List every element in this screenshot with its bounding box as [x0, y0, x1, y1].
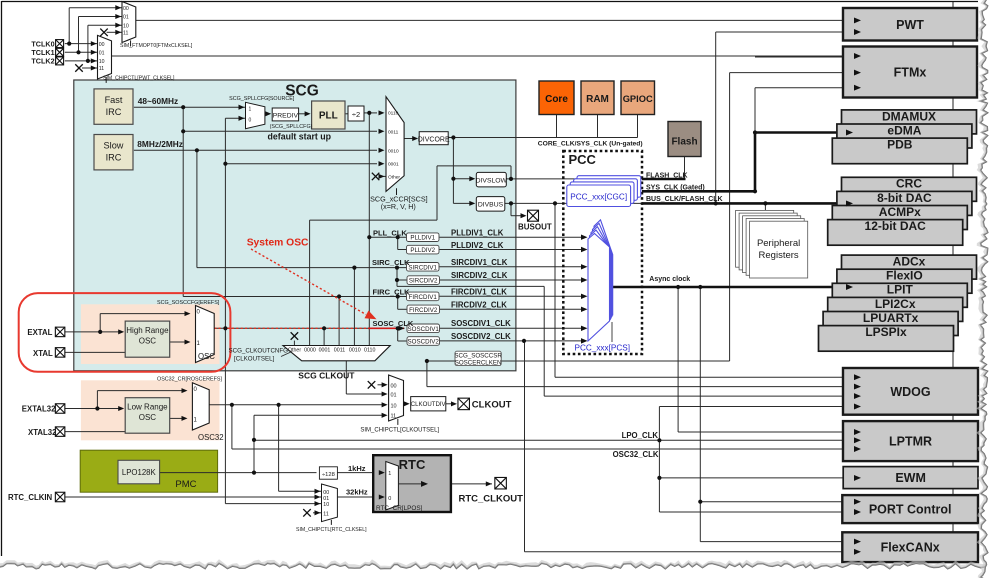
- svg-text:(x=R, V, H): (x=R, V, H): [381, 202, 416, 211]
- svg-text:SOSCDIV1_CLK: SOSCDIV1_CLK: [451, 319, 511, 328]
- svg-text:SIM_FTMOPT0[FTMxCLKSEL]: SIM_FTMOPT0[FTMxCLKSEL]: [120, 43, 193, 49]
- svg-text:11: 11: [391, 414, 397, 420]
- svg-text:SOSCDIV1: SOSCDIV1: [408, 326, 440, 333]
- svg-text:Other: Other: [288, 347, 301, 353]
- svg-text:SIRCDIV1: SIRCDIV1: [408, 264, 437, 271]
- svg-text:8MHz/2MHz: 8MHz/2MHz: [137, 139, 183, 149]
- svg-text:CLKOUT: CLKOUT: [472, 399, 512, 410]
- svg-text:0110: 0110: [388, 111, 399, 117]
- svg-text:PLL_CLK: PLL_CLK: [373, 228, 407, 237]
- svg-text:FIRCDIV1_CLK: FIRCDIV1_CLK: [451, 287, 507, 296]
- svg-text:PLLDIV2_CLK: PLLDIV2_CLK: [451, 241, 504, 250]
- svg-text:SCG_SOSCCSR: SCG_SOSCCSR: [454, 353, 502, 360]
- svg-text:PLLDIV2: PLLDIV2: [410, 247, 435, 254]
- svg-text:PCC_xxx[PCS]: PCC_xxx[PCS]: [575, 344, 631, 353]
- svg-text:RTC_CLKOUT: RTC_CLKOUT: [459, 493, 524, 504]
- svg-text:0010: 0010: [349, 347, 361, 353]
- svg-text:SIM_CHIPCTL[RTC_CLKSEL]: SIM_CHIPCTL[RTC_CLKSEL]: [296, 527, 367, 533]
- svg-text:10: 10: [123, 23, 129, 29]
- svg-text:01: 01: [123, 15, 129, 21]
- svg-text:FIRCDIV2_CLK: FIRCDIV2_CLK: [451, 300, 507, 309]
- svg-text:01: 01: [391, 393, 397, 399]
- svg-text:XTAL32: XTAL32: [28, 428, 57, 437]
- svg-text:PCC_xxx[CGC]: PCC_xxx[CGC]: [570, 193, 627, 202]
- svg-text:0110: 0110: [364, 347, 375, 353]
- svg-text:IRC: IRC: [106, 107, 122, 117]
- svg-text:48~60MHz: 48~60MHz: [138, 96, 178, 106]
- svg-text:FIRC_CLK: FIRC_CLK: [373, 287, 411, 296]
- svg-text:00: 00: [391, 383, 397, 389]
- svg-text:1: 1: [388, 471, 391, 477]
- svg-text:SIM_CHIPCTL[PWT_CLKSEL]: SIM_CHIPCTL[PWT_CLKSEL]: [103, 75, 175, 81]
- svg-text:SCG_SOSCCFG[EREFS]: SCG_SOSCCFG[EREFS]: [157, 300, 220, 306]
- svg-text:1kHz: 1kHz: [348, 464, 366, 473]
- svg-text:PORT Control: PORT Control: [869, 503, 952, 517]
- svg-text:EWM: EWM: [895, 471, 926, 485]
- svg-text:SOSCDIV2_CLK: SOSCDIV2_CLK: [451, 332, 511, 341]
- svg-text:EXTAL32: EXTAL32: [22, 405, 56, 414]
- svg-text:ACMPx: ACMPx: [879, 205, 921, 219]
- svg-text:PREDIV: PREDIV: [273, 112, 299, 119]
- svg-text:0010: 0010: [388, 148, 399, 154]
- svg-text:RTC: RTC: [399, 457, 426, 472]
- svg-text:OSC32: OSC32: [198, 433, 224, 442]
- svg-text:SCG_SPLLCFG[SOURCE]: SCG_SPLLCFG[SOURCE]: [229, 96, 295, 102]
- svg-text:PLLDIV1: PLLDIV1: [410, 235, 435, 242]
- svg-text:EXTAL: EXTAL: [27, 328, 52, 337]
- svg-text:TCLK0: TCLK0: [31, 39, 54, 48]
- svg-text:FIRCDIV1: FIRCDIV1: [409, 294, 438, 301]
- svg-text:00: 00: [99, 42, 105, 48]
- svg-text:CLKOUTDIV: CLKOUTDIV: [411, 401, 447, 408]
- svg-text:RTC_CR[LPOS]: RTC_CR[LPOS]: [376, 505, 423, 512]
- svg-text:8-bit DAC: 8-bit DAC: [877, 191, 932, 205]
- svg-text:CRC: CRC: [896, 177, 922, 191]
- svg-text:OSC32_CLK: OSC32_CLK: [613, 450, 659, 459]
- svg-text:10: 10: [323, 502, 329, 508]
- svg-text:0: 0: [249, 118, 252, 124]
- svg-text:DIVBUS: DIVBUS: [478, 201, 504, 208]
- svg-text:SIRCDIV2: SIRCDIV2: [409, 278, 438, 285]
- svg-text:FTMx: FTMx: [894, 66, 927, 80]
- svg-text:Flash: Flash: [671, 136, 697, 147]
- svg-text:GPIOC: GPIOC: [623, 94, 653, 104]
- svg-text:LPO128K: LPO128K: [122, 468, 157, 477]
- svg-text:SCG CLKOUT: SCG CLKOUT: [298, 371, 355, 381]
- svg-text:PLLDIV1_CLK: PLLDIV1_CLK: [451, 228, 504, 237]
- svg-text:RTC_CLKIN: RTC_CLKIN: [8, 493, 53, 502]
- svg-text:Fast: Fast: [105, 95, 123, 105]
- svg-text:DMAMUX: DMAMUX: [882, 109, 936, 123]
- svg-text:PCC: PCC: [569, 152, 597, 167]
- svg-text:PLL: PLL: [319, 111, 338, 122]
- svg-text:PMC: PMC: [175, 479, 196, 490]
- svg-text:IRC: IRC: [106, 152, 122, 162]
- svg-text:32kHz: 32kHz: [346, 488, 368, 497]
- svg-text:÷2: ÷2: [352, 110, 360, 119]
- svg-text:FlexIO: FlexIO: [886, 269, 923, 283]
- svg-text:LPSPIx: LPSPIx: [865, 325, 907, 339]
- svg-text:BUSOUT: BUSOUT: [518, 223, 552, 232]
- svg-text:FlexCANx: FlexCANx: [881, 541, 940, 555]
- svg-text:0011: 0011: [388, 129, 399, 135]
- svg-text:SYS_CLK (Gated): SYS_CLK (Gated): [646, 184, 705, 191]
- svg-text:Slow: Slow: [104, 141, 124, 151]
- svg-text:PDB: PDB: [887, 138, 913, 152]
- svg-text:10: 10: [99, 59, 105, 65]
- svg-text:(SCG_SPLLCFG): (SCG_SPLLCFG): [270, 124, 313, 130]
- svg-text:CORE_CLK/SYS_CLK (Un-gated): CORE_CLK/SYS_CLK (Un-gated): [538, 140, 643, 147]
- svg-text:SOSCERCLKEN: SOSCERCLKEN: [455, 360, 502, 367]
- svg-text:ADCx: ADCx: [893, 255, 926, 269]
- svg-text:FIRCDIV2: FIRCDIV2: [409, 307, 438, 314]
- svg-text:SOSCDIV2: SOSCDIV2: [408, 339, 440, 346]
- svg-text:RAM: RAM: [586, 94, 609, 105]
- svg-text:Low Range: Low Range: [127, 403, 168, 412]
- svg-text:00: 00: [123, 6, 129, 12]
- svg-text:Other: Other: [388, 174, 400, 180]
- svg-text:SIM_CHIPCTL[CLKOUTSEL]: SIM_CHIPCTL[CLKOUTSEL]: [360, 427, 439, 433]
- svg-text:DIVCORE: DIVCORE: [418, 136, 450, 143]
- svg-text:LPI2Cx: LPI2Cx: [875, 297, 916, 311]
- svg-text:11: 11: [323, 511, 329, 517]
- svg-text:Peripheral: Peripheral: [757, 238, 800, 249]
- svg-text:OSC: OSC: [198, 352, 215, 361]
- svg-text:SIRC_CLK: SIRC_CLK: [372, 258, 410, 267]
- svg-text:0001: 0001: [388, 162, 399, 168]
- svg-text:LPTMR: LPTMR: [889, 435, 932, 449]
- svg-text:12-bit DAC: 12-bit DAC: [865, 219, 927, 233]
- svg-text:WDOG: WDOG: [890, 385, 930, 399]
- svg-text:TCLK2: TCLK2: [31, 57, 54, 66]
- svg-text:LPUARTx: LPUARTx: [863, 311, 919, 325]
- svg-text:OSC: OSC: [139, 337, 157, 346]
- svg-text:LPO_CLK: LPO_CLK: [622, 431, 659, 440]
- svg-text:Registers: Registers: [759, 250, 799, 261]
- svg-text:11: 11: [99, 66, 104, 72]
- svg-text:SCG_CLKOUTCNFG: SCG_CLKOUTCNFG: [229, 348, 289, 355]
- svg-text:0000: 0000: [304, 347, 316, 353]
- svg-text:DIVSLOW: DIVSLOW: [476, 177, 508, 184]
- svg-text:01: 01: [323, 496, 329, 502]
- svg-text:PWT: PWT: [896, 18, 924, 32]
- svg-text:SIRCDIV1_CLK: SIRCDIV1_CLK: [451, 258, 508, 267]
- svg-text:FLASH_CLK: FLASH_CLK: [646, 172, 688, 179]
- svg-text:Async clock: Async clock: [649, 276, 690, 283]
- svg-text:1: 1: [249, 107, 252, 113]
- svg-text:10: 10: [391, 403, 397, 409]
- svg-text:[CLKOUTSEL]: [CLKOUTSEL]: [234, 356, 275, 363]
- svg-text:0011: 0011: [334, 347, 345, 353]
- svg-text:eDMA: eDMA: [887, 123, 921, 137]
- svg-text:XTAL: XTAL: [33, 349, 53, 358]
- svg-text:default start up: default start up: [268, 132, 332, 142]
- svg-text:OSC: OSC: [139, 413, 157, 422]
- svg-text:LPIT: LPIT: [887, 283, 914, 297]
- svg-text:High Range: High Range: [126, 326, 169, 335]
- svg-text:÷128: ÷128: [322, 472, 335, 478]
- svg-text:Core: Core: [545, 94, 568, 105]
- svg-text:SIRCDIV2_CLK: SIRCDIV2_CLK: [451, 271, 508, 280]
- svg-text:11: 11: [123, 31, 128, 37]
- svg-text:0: 0: [388, 496, 391, 502]
- svg-text:01: 01: [99, 51, 105, 57]
- svg-text:BUS_CLK/FLASH_CLK: BUS_CLK/FLASH_CLK: [646, 196, 723, 203]
- svg-text:System OSC: System OSC: [247, 237, 309, 248]
- svg-text:0001: 0001: [319, 347, 331, 353]
- svg-text:OSC32_CR[ROSCEREFS]: OSC32_CR[ROSCEREFS]: [157, 377, 223, 383]
